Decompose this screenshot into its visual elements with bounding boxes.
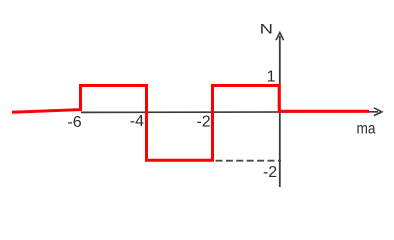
svg-text:ma: ma <box>357 121 376 138</box>
dashed level line at -2 <box>216 160 282 162</box>
x axis (ma axis) <box>81 108 382 115</box>
svg-text:N: N <box>260 21 273 36</box>
svg-text:-6: -6 <box>67 114 81 131</box>
svg-text:-4: -4 <box>130 113 144 130</box>
y axis (N axis) <box>276 33 283 187</box>
svg-text:-2: -2 <box>263 164 277 181</box>
svg-text:1: 1 <box>267 69 276 86</box>
svg-text:-2: -2 <box>196 113 210 130</box>
wire: red square-wave signal <box>12 86 369 161</box>
